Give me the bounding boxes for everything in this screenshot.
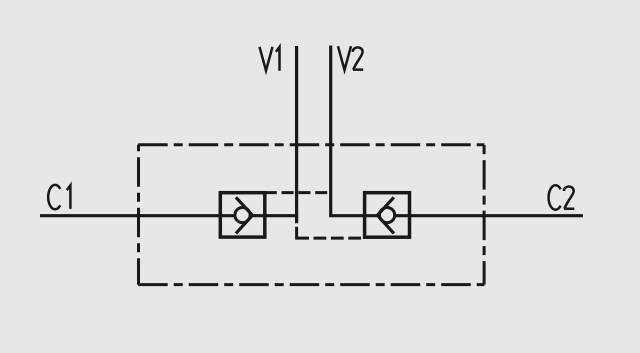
check valve box B2 (right) — [365, 193, 410, 238]
check valve ball (left) — [235, 208, 250, 223]
enclosure dash-dot boundary left edge — [137, 145, 140, 285]
pilot line dashed: run to right valve bottom corner — [314, 237, 365, 240]
label V1 — [260, 47, 280, 71]
enclosure dash-dot boundary right edge — [483, 145, 486, 285]
label C2 — [549, 185, 575, 209]
enclosure dash-dot boundary top edge — [138, 143, 484, 146]
check valve seat (left) — [236, 197, 253, 233]
check valve seat (right) — [377, 197, 394, 233]
check valve ball (right) — [380, 208, 395, 223]
check valve box B1 (left) — [220, 193, 264, 237]
wire: C1 port line — [40, 214, 298, 217]
pilot line dashed: V1 junction corner L piece — [297, 227, 309, 238]
label V2 — [338, 46, 363, 70]
wire: V2 vertical line with elbow to right box — [331, 46, 583, 216]
pilot line dashed: V2 tap to left valve top corner — [265, 191, 332, 194]
wire: V1 vertical line — [295, 46, 298, 223]
label C1 — [48, 185, 70, 209]
enclosure dash-dot boundary bottom edge — [138, 283, 484, 286]
